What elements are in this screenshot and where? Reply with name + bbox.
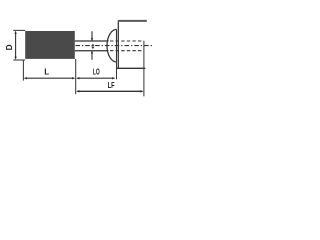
dimension D line [15, 33, 17, 59]
hidden shank bottom line [110, 50, 144, 52]
dimension L line [26, 77, 74, 79]
svg-text:L: L [44, 68, 49, 77]
hidden shank top line [110, 40, 144, 42]
shank top line [75, 40, 109, 42]
shank bottom line [75, 50, 109, 52]
dimension LO line [78, 77, 114, 79]
svg-text:LO: LO [93, 68, 100, 77]
machine body bottom edge [117, 67, 145, 69]
wire: L left extension line [22, 60, 24, 81]
dimension d inner arrowheads [91, 44, 94, 46]
wire: LF right extension line [143, 41, 145, 97]
svg-text:D: D [5, 44, 14, 50]
wire: D top extension line [13, 29, 25, 31]
dimension d upper leader [91, 31, 93, 40]
machine body top edge [118, 20, 147, 22]
centerline axis [76, 45, 153, 47]
wire: LO right extension line [116, 62, 118, 79]
collet nose chord [116, 29, 118, 62]
dimension LF line [78, 90, 143, 92]
machine body left edge [117, 20, 119, 68]
svg-text:LF: LF [108, 80, 115, 90]
dimension d lower leader [91, 51, 93, 60]
grinding wheel body W1 [25, 31, 75, 59]
collet nose arc [107, 29, 117, 62]
wire: shared extension line at wheel face [75, 59, 77, 94]
wire: D bottom extension line [13, 59, 25, 61]
